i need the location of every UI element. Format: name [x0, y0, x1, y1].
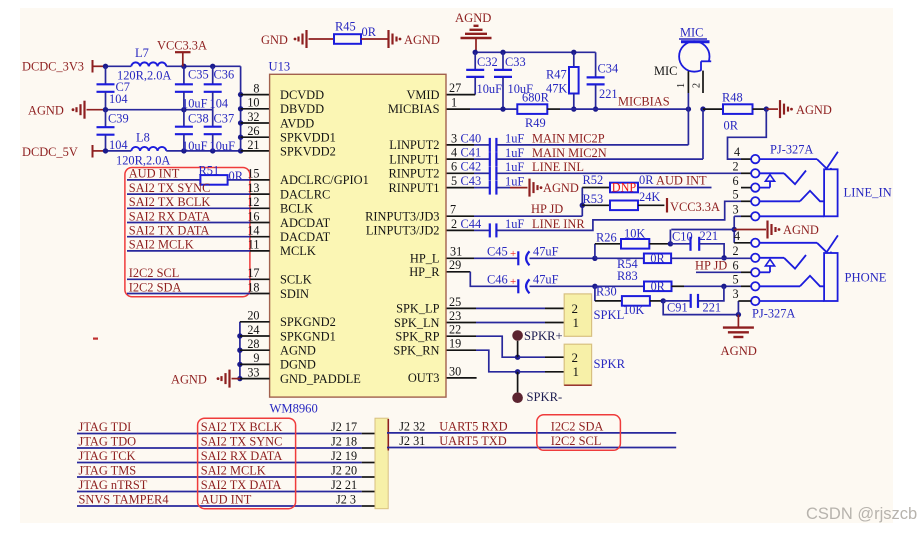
svg-text:DACLRC: DACLRC — [280, 187, 330, 201]
svg-text:LINE INR: LINE INR — [532, 217, 585, 231]
inductor L7 — [117, 46, 171, 83]
svg-text:+: + — [510, 276, 516, 288]
net label row JTAG_nTRST — [77, 478, 375, 492]
capacitor C37 — [204, 110, 235, 153]
net label I2C2_SCL — [127, 266, 270, 280]
svg-text:1: 1 — [573, 315, 580, 330]
svg-text:PJ-327A: PJ-327A — [770, 143, 813, 157]
svg-text:DCVDD: DCVDD — [280, 88, 324, 102]
svg-text:C33: C33 — [505, 55, 526, 69]
svg-text:2: 2 — [733, 244, 739, 258]
svg-text:120R,2.0A: 120R,2.0A — [116, 154, 170, 168]
svg-text:47uF: 47uF — [533, 245, 559, 259]
connector LINE_IN jack PJ-327A — [733, 143, 892, 221]
svg-text:24: 24 — [247, 323, 259, 337]
svg-text:19: 19 — [449, 337, 461, 351]
wire pin30 OUT3 stub — [446, 364, 477, 378]
svg-text:SAI2 MCLK: SAI2 MCLK — [129, 238, 194, 252]
svg-text:AGND: AGND — [28, 104, 64, 118]
svg-text:DCDC_3V3: DCDC_3V3 — [22, 60, 84, 74]
svg-text:MAIN MIC2N: MAIN MIC2N — [532, 146, 607, 160]
svg-text:VCC3.3A: VCC3.3A — [670, 200, 720, 214]
svg-text:R48: R48 — [722, 91, 743, 105]
svg-text:221: 221 — [703, 301, 722, 315]
svg-text:ADCDAT: ADCDAT — [280, 216, 331, 230]
wire MIC to R48 — [703, 108, 723, 110]
svg-text:+: + — [510, 248, 516, 260]
power port AGND at jack node — [734, 221, 819, 239]
svg-text:31: 31 — [450, 245, 462, 259]
svg-text:0R: 0R — [362, 25, 377, 39]
svg-text:J2 18: J2 18 — [331, 435, 357, 449]
connector J2 yellow bar — [375, 418, 388, 509]
svg-text:28: 28 — [247, 337, 259, 351]
net label row JTAG_TDI — [77, 420, 375, 434]
svg-text:32: 32 — [247, 110, 259, 124]
svg-text:SAI2 TX SYNC: SAI2 TX SYNC — [129, 181, 211, 195]
svg-text:SDIN: SDIN — [280, 287, 309, 301]
capacitor C10 — [670, 229, 726, 261]
power port VCC3.3A at R53 — [667, 198, 720, 214]
svg-text:SAI2 RX DATA: SAI2 RX DATA — [129, 209, 211, 223]
svg-text:1uF: 1uF — [505, 217, 524, 231]
pin number 21 — [247, 138, 259, 152]
svg-text:J2 19: J2 19 — [331, 449, 357, 463]
resistor R53 — [582, 190, 664, 210]
wire net HP JD pin7 — [446, 188, 585, 217]
svg-text:8: 8 — [253, 81, 259, 95]
svg-text:2: 2 — [733, 160, 739, 174]
wire pin31 stub — [446, 245, 518, 259]
svg-text:6: 6 — [733, 174, 739, 188]
wire net DCDC_3V3 top rail — [103, 64, 241, 69]
svg-text:SPKL: SPKL — [594, 308, 625, 322]
svg-text:221: 221 — [599, 87, 618, 101]
wire power pin stubs — [241, 95, 270, 151]
pin number 28 — [247, 337, 259, 351]
IC U13 right pin names — [365, 88, 440, 385]
microphone MIC — [654, 26, 712, 79]
resistor R45 — [334, 20, 377, 44]
power port AGND left — [28, 101, 106, 119]
svg-text:4: 4 — [734, 229, 740, 243]
svg-text:AGND: AGND — [783, 223, 819, 237]
resistor R26 — [595, 227, 673, 259]
svg-text:AGND: AGND — [543, 181, 579, 195]
svg-text:AUD INT: AUD INT — [656, 173, 707, 187]
pin number 26 — [247, 124, 259, 138]
svg-text:SPKR: SPKR — [594, 357, 626, 371]
svg-text:C46: C46 — [487, 273, 508, 287]
svg-text:14: 14 — [247, 224, 259, 238]
watermark CSDN — [806, 505, 917, 523]
wire net AGND mid rail — [103, 107, 213, 112]
svg-text:SAI2 TX DATA: SAI2 TX DATA — [129, 224, 210, 238]
svg-text:0R: 0R — [724, 119, 739, 133]
stray red mark — [93, 338, 98, 340]
pin number 9 — [253, 351, 259, 365]
svg-text:25: 25 — [449, 295, 461, 309]
svg-text:3: 3 — [733, 203, 739, 217]
net label row SNVS_TAMPER4 — [77, 493, 375, 507]
svg-text:C35: C35 — [188, 68, 209, 82]
net label AUD_INT / resistor R51 — [127, 163, 270, 184]
svg-text:5: 5 — [733, 188, 739, 202]
IC U13 WM8960 body — [269, 60, 447, 416]
svg-text:MIC: MIC — [654, 64, 677, 78]
resistor R48 — [722, 91, 753, 133]
svg-text:SAI2 TX SYNC: SAI2 TX SYNC — [201, 435, 283, 449]
svg-text:AUD INT: AUD INT — [129, 167, 180, 181]
svg-text:HP_L: HP_L — [410, 252, 440, 266]
capacitor C42 / net LINE INL — [446, 160, 751, 181]
svg-text:13: 13 — [247, 181, 259, 195]
svg-text:LINPUT1: LINPUT1 — [389, 152, 439, 166]
wire net SPK_LP — [446, 295, 564, 309]
svg-text:104: 104 — [109, 92, 128, 106]
net label row JTAG_TMS — [77, 464, 375, 478]
svg-text:AGND: AGND — [721, 344, 757, 358]
wire R30 to phone-gnd — [663, 301, 741, 317]
wire net HP_L — [530, 256, 598, 261]
svg-text:18: 18 — [247, 280, 259, 294]
svg-text:21: 21 — [247, 138, 259, 152]
svg-text:3: 3 — [451, 131, 457, 145]
svg-text:JTAG nTRST: JTAG nTRST — [79, 478, 148, 492]
resistor R83 — [595, 269, 751, 293]
net label AUD INT right — [656, 173, 707, 187]
wire pin27 VMID stub — [446, 94, 475, 96]
svg-text:10K: 10K — [623, 303, 644, 317]
svg-text:SNVS TAMPER4: SNVS TAMPER4 — [79, 493, 169, 507]
capacitor C91 — [663, 286, 724, 314]
net label SAI2_MCLK — [127, 238, 270, 252]
net label SAI2_RX_DATA — [127, 209, 270, 223]
svg-text:C45: C45 — [487, 245, 508, 259]
svg-text:C10: C10 — [672, 230, 693, 244]
capacitor C36 — [204, 66, 234, 110]
resistor R52 DNP — [582, 173, 638, 194]
svg-text:L7: L7 — [135, 46, 149, 60]
svg-text:HP JD: HP JD — [531, 202, 563, 216]
connector SPKL — [564, 294, 624, 336]
svg-text:10: 10 — [247, 96, 259, 110]
svg-text:29: 29 — [449, 258, 461, 272]
IC U13 left pin names — [280, 88, 369, 386]
capacitor C7 — [97, 66, 130, 109]
net label I2C2_SDA — [127, 280, 270, 294]
svg-text:C39: C39 — [108, 112, 129, 126]
svg-text:5: 5 — [451, 174, 457, 188]
svg-text:AUD INT: AUD INT — [201, 493, 252, 507]
pin number 24 — [247, 323, 259, 337]
svg-text:C42: C42 — [461, 160, 482, 174]
svg-text:MICBIAS: MICBIAS — [618, 95, 670, 109]
connector SPKR — [564, 344, 625, 385]
svg-text:LINE_IN: LINE_IN — [844, 186, 892, 200]
test point SPKR+ — [512, 329, 562, 357]
svg-text:JTAG TDI: JTAG TDI — [79, 420, 132, 434]
capacitor C41 / net MAIN MIC2N — [446, 146, 703, 167]
pin number 1 — [451, 96, 457, 110]
svg-text:27: 27 — [449, 81, 461, 95]
svg-text:LINPUT3/JD2: LINPUT3/JD2 — [366, 224, 440, 238]
svg-text:SPKVDD1: SPKVDD1 — [280, 131, 336, 145]
svg-text:JTAG TMS: JTAG TMS — [79, 464, 137, 478]
power port AGND at C43 — [496, 179, 578, 197]
power port VCC3.3A top — [157, 39, 207, 67]
wire net HP_R — [530, 284, 598, 289]
svg-text:R47: R47 — [546, 68, 567, 82]
svg-text:SPKR+: SPKR+ — [524, 329, 563, 343]
svg-text:RINPUT1: RINPUT1 — [389, 181, 440, 195]
wire R48 to AGND — [753, 106, 770, 111]
svg-text:LINE INL: LINE INL — [532, 160, 584, 174]
capacitor C33 — [494, 52, 533, 109]
MIC pin 2 — [691, 71, 703, 93]
svg-text:I2C2 SDA: I2C2 SDA — [551, 420, 604, 434]
svg-text:R49: R49 — [525, 116, 546, 130]
svg-text:R51: R51 — [199, 163, 220, 177]
net label SAI2_TX_DATA — [127, 224, 270, 238]
power port AGND top center-left — [389, 30, 440, 48]
svg-text:2: 2 — [451, 217, 457, 231]
svg-text:J2 3: J2 3 — [336, 493, 356, 507]
resistor R30 — [595, 284, 666, 317]
svg-text:J2 20: J2 20 — [331, 464, 357, 478]
svg-text:UART5 RXD: UART5 RXD — [439, 420, 507, 434]
svg-text:PHONE: PHONE — [845, 271, 887, 285]
svg-text:4: 4 — [451, 146, 457, 160]
wire net VMID/AGND rail — [473, 50, 596, 55]
svg-text:WM8960: WM8960 — [270, 402, 318, 416]
svg-text:104: 104 — [210, 97, 229, 111]
svg-text:DBVDD: DBVDD — [280, 102, 324, 116]
svg-text:10uF: 10uF — [182, 97, 208, 111]
svg-text:SPK_LN: SPK_LN — [394, 316, 439, 330]
net label MICBIAS — [618, 95, 670, 109]
svg-text:16: 16 — [247, 209, 259, 223]
svg-text:GND: GND — [261, 33, 288, 47]
svg-text:SPKGND2: SPKGND2 — [280, 315, 336, 329]
svg-text:9: 9 — [253, 351, 259, 365]
wire net SPK_RP — [446, 323, 564, 360]
svg-text:JTAG TDO: JTAG TDO — [79, 435, 137, 449]
red box signal labels — [125, 168, 250, 297]
svg-text:15: 15 — [247, 167, 259, 181]
pin number 10 — [247, 96, 259, 110]
svg-text:0R: 0R — [650, 251, 665, 265]
wire R26 to jack-gnd — [669, 230, 671, 244]
svg-text:ADCLRC/GPIO1: ADCLRC/GPIO1 — [280, 173, 369, 187]
power port AGND earth top — [455, 11, 492, 52]
svg-text:7: 7 — [450, 202, 456, 216]
svg-text:LINPUT2: LINPUT2 — [389, 138, 439, 152]
svg-text:22: 22 — [449, 323, 461, 337]
svg-text:J2 32: J2 32 — [399, 420, 425, 434]
connector PHONE jack PJ-327A — [696, 229, 887, 321]
net label row JTAG_TDO — [77, 435, 375, 449]
pin number 27 — [449, 81, 461, 95]
svg-text:UART5 TXD: UART5 TXD — [439, 434, 507, 448]
power port DCDC_3V3 — [22, 60, 106, 74]
resistor R54 — [595, 251, 751, 271]
inductor L8 — [116, 131, 170, 168]
svg-text:104: 104 — [109, 138, 128, 152]
svg-text:SPKGND1: SPKGND1 — [280, 329, 336, 343]
power port DCDC_5V — [22, 145, 106, 159]
svg-text:I2C2 SCL: I2C2 SCL — [129, 266, 180, 280]
svg-text:AGND: AGND — [171, 373, 207, 387]
svg-text:C40: C40 — [461, 131, 482, 145]
svg-text:SCLK: SCLK — [280, 273, 312, 287]
net label HP JD at phone — [695, 259, 727, 273]
svg-text:PJ-327A: PJ-327A — [752, 307, 795, 321]
svg-text:J2 17: J2 17 — [331, 420, 357, 434]
wire pin29 stub — [446, 258, 518, 286]
svg-text:C41: C41 — [461, 146, 482, 160]
wire net AGND chip gnd pins — [237, 322, 269, 382]
wire net SPK_RN — [446, 337, 564, 375]
svg-text:AGND: AGND — [455, 11, 491, 25]
svg-text:HP JD: HP JD — [695, 259, 727, 273]
svg-text:MICBIAS: MICBIAS — [388, 102, 440, 116]
svg-text:6: 6 — [733, 259, 739, 273]
svg-text:10uF: 10uF — [182, 139, 208, 153]
pin number 33 — [247, 365, 259, 379]
net label HP JD — [531, 202, 563, 216]
svg-text:20: 20 — [247, 309, 259, 323]
svg-text:SAI2 RX DATA: SAI2 RX DATA — [201, 449, 283, 463]
svg-text:30: 30 — [449, 364, 461, 378]
net label J2_31 UART5_TXD — [387, 434, 676, 448]
svg-text:J2 31: J2 31 — [399, 434, 425, 448]
svg-text:OUT3: OUT3 — [408, 371, 440, 385]
power port AGND earth at phone — [721, 315, 757, 358]
MIC pin 1 — [676, 71, 688, 109]
svg-text:L8: L8 — [136, 131, 150, 145]
svg-text:47K: 47K — [546, 82, 567, 96]
svg-text:DGND: DGND — [280, 358, 316, 372]
svg-text:0R: 0R — [651, 279, 666, 293]
svg-text:MCLK: MCLK — [280, 244, 316, 258]
svg-text:R45: R45 — [335, 20, 356, 34]
svg-text:1uF: 1uF — [505, 146, 524, 160]
svg-text:6: 6 — [451, 160, 457, 174]
power port AGND bottom left — [171, 370, 240, 388]
svg-text:SPKVDD2: SPKVDD2 — [280, 145, 336, 159]
svg-text:AGND: AGND — [796, 103, 832, 117]
wire net MICBIAS — [446, 106, 598, 111]
svg-text:47uF: 47uF — [533, 273, 559, 287]
svg-text:MIC: MIC — [680, 26, 703, 40]
svg-text:1: 1 — [573, 364, 580, 379]
svg-text:680R: 680R — [522, 91, 550, 105]
svg-text:R52: R52 — [583, 173, 604, 187]
svg-text:C32: C32 — [477, 55, 498, 69]
svg-text:SPK_RN: SPK_RN — [393, 344, 439, 358]
svg-text:12: 12 — [247, 195, 259, 209]
wire net DCDC_5V bottom rail — [103, 148, 244, 153]
capacitor C40 / net MAIN MIC2P — [446, 131, 688, 152]
svg-text:DCDC_5V: DCDC_5V — [22, 145, 78, 159]
svg-text:24K: 24K — [639, 190, 660, 204]
svg-text:221: 221 — [700, 229, 719, 243]
svg-text:VCC3.3A: VCC3.3A — [157, 39, 207, 53]
svg-text:5: 5 — [733, 273, 739, 287]
svg-text:SAI2 TX DATA: SAI2 TX DATA — [201, 478, 282, 492]
svg-text:0R: 0R — [229, 169, 244, 183]
svg-text:AGND: AGND — [280, 344, 316, 358]
capacitor C34 — [587, 52, 619, 109]
svg-text:SAI2 TX BCLK: SAI2 TX BCLK — [201, 420, 283, 434]
power port AGND at R48 — [766, 100, 832, 118]
wire net MIC detect to jack pin4 — [728, 109, 767, 159]
svg-text:MAIN MIC2P: MAIN MIC2P — [532, 132, 605, 146]
svg-text:4: 4 — [734, 145, 740, 159]
red box I2C2 — [537, 415, 621, 451]
wire R45 to AGND — [361, 38, 388, 40]
svg-text:SPKR-: SPKR- — [527, 390, 563, 404]
svg-text:DNP: DNP — [612, 180, 637, 194]
capacitor C38 — [175, 110, 209, 153]
svg-text:I2C2 SCL: I2C2 SCL — [551, 434, 602, 448]
svg-text:AGND: AGND — [404, 33, 440, 47]
svg-text:0R: 0R — [639, 173, 654, 187]
svg-text:1uF: 1uF — [505, 132, 524, 146]
svg-text:C44: C44 — [461, 217, 482, 231]
svg-text:3: 3 — [733, 287, 739, 301]
svg-text:VMID: VMID — [406, 88, 439, 102]
svg-text:2: 2 — [572, 350, 579, 365]
pin number 20 — [247, 309, 259, 323]
svg-text:1: 1 — [451, 96, 457, 110]
capacitor C46 — [487, 273, 559, 294]
svg-text:C37: C37 — [214, 112, 235, 126]
pin number 8 — [253, 81, 259, 95]
svg-text:BCLK: BCLK — [280, 202, 313, 216]
svg-text:10uF: 10uF — [210, 139, 236, 153]
svg-text:10uF: 10uF — [477, 82, 503, 96]
resistor R49 — [517, 91, 549, 131]
capacitor C32 — [466, 52, 502, 96]
svg-text:SPK_RP: SPK_RP — [395, 330, 439, 344]
svg-text:R53: R53 — [583, 192, 604, 206]
svg-text:RINPUT2: RINPUT2 — [389, 167, 440, 181]
wire net AUD INT right — [638, 173, 712, 187]
net label SAI2_TX_BCLK — [127, 195, 270, 209]
svg-text:SAI2 MCLK: SAI2 MCLK — [201, 464, 266, 478]
svg-text:U13: U13 — [269, 60, 291, 74]
svg-text:DACDAT: DACDAT — [280, 230, 331, 244]
svg-text:10K: 10K — [624, 227, 645, 241]
svg-text:C91: C91 — [667, 301, 688, 315]
svg-text:17: 17 — [247, 266, 259, 280]
svg-text:R30: R30 — [596, 284, 617, 298]
svg-text:SPK_LP: SPK_LP — [396, 302, 439, 316]
capacitor C39 — [97, 110, 129, 152]
svg-text:2: 2 — [572, 301, 579, 316]
wire net VCC3.3A to power pins — [238, 66, 243, 151]
resistor R47 — [546, 52, 579, 109]
net label J2_32 UART5_RXD — [387, 420, 676, 434]
svg-text:CSDN @rjszcb: CSDN @rjszcb — [806, 505, 917, 523]
svg-text:1uF: 1uF — [505, 160, 524, 174]
svg-text:C36: C36 — [214, 68, 235, 82]
svg-text:HP_R: HP_R — [409, 265, 440, 279]
svg-text:2: 2 — [691, 83, 702, 88]
power port GND top — [261, 30, 334, 48]
